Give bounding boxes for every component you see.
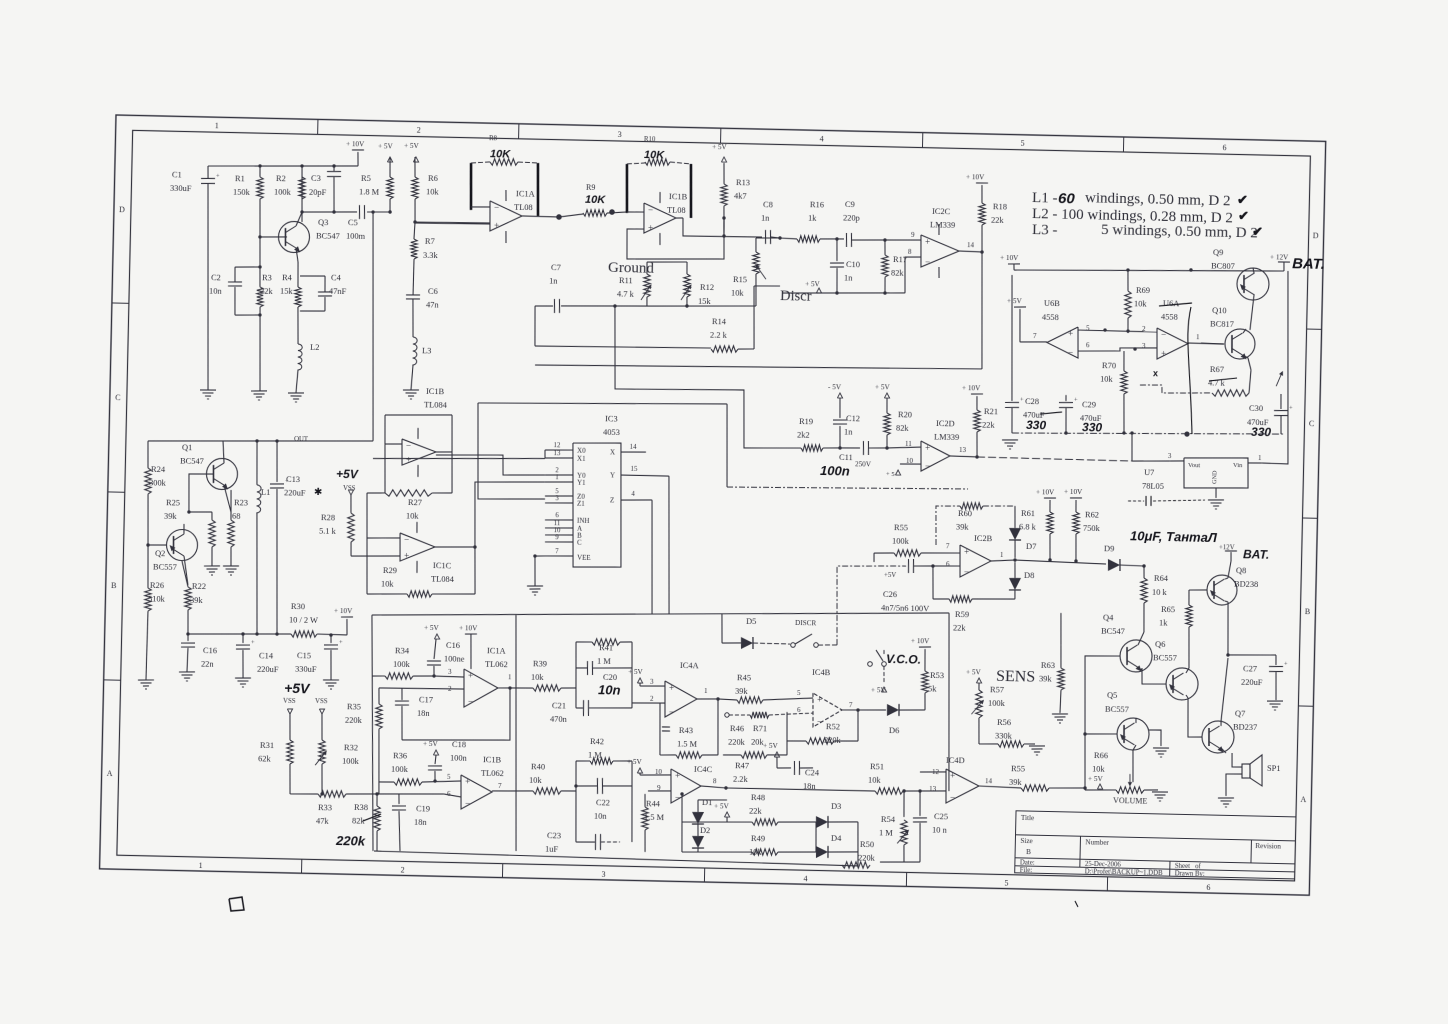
svg-text:330: 330 [1026,418,1047,432]
svg-text:R2: R2 [276,174,286,183]
svg-text:R3: R3 [262,273,272,282]
svg-text:330k: 330k [995,732,1013,741]
svg-text:+ 5V: + 5V [1088,775,1104,783]
wire X1 net to OUT [373,455,545,462]
resistor R20 [883,413,890,435]
op-amp IC1A feedback box with resistor R8 [470,163,472,210]
svg-text:R7: R7 [425,237,435,246]
svg-text:R31: R31 [260,741,274,750]
U7 pin stubs [1170,460,1184,463]
wire switch to C26 [835,565,906,647]
wire U7 vin to +12V rail [1262,271,1292,464]
svg-text:IC1B: IC1B [426,387,445,396]
op-amp IC1C [399,533,435,562]
resistor R39 [533,684,561,691]
ground R25 [204,565,220,568]
svg-text:+ 5V: + 5V [805,280,821,288]
ground U7 [1208,499,1224,502]
svg-text:L3: L3 [422,346,432,355]
svg-text:3.3k: 3.3k [423,251,439,260]
svg-text:✔: ✔ [1252,224,1263,239]
wire upper long bus to IC3 [478,399,727,409]
svg-text:220k: 220k [824,735,842,744]
svg-text:+: + [669,683,674,693]
svg-text:+ 10V: + 10V [459,624,478,632]
svg-text:15k: 15k [280,287,294,296]
op-amp IC1A [489,201,522,232]
svg-text:R40: R40 [531,762,545,771]
svg-text:10k: 10k [1134,299,1148,308]
IC chip IC3 4053 box [570,413,624,568]
svg-text:R8: R8 [489,135,498,142]
resistor R21 [973,410,980,432]
svg-text:R52: R52 [826,722,840,731]
svg-text:C10: C10 [846,260,860,269]
svg-text:BC547: BC547 [316,231,340,241]
diode D1 [697,800,700,812]
wire bus down to IC2D box [725,404,729,487]
resistor R60 feedback dashdot [935,505,960,545]
hand cap tantal [1145,496,1147,506]
svg-text:R63: R63 [1041,661,1055,670]
resistor R70 [1120,371,1127,394]
resistor R67 line [1140,385,1212,395]
svg-text:100m: 100m [346,232,366,241]
svg-text:R51: R51 [870,762,884,771]
capacitor C16 100n [434,634,439,639]
capacitor C16 22n [187,634,189,641]
svg-text:4k7: 4k7 [734,192,747,201]
svg-text:BD238: BD238 [1234,580,1258,590]
capacitor C26 [907,559,910,573]
trimpot R32 [321,714,322,740]
resistor R23 [227,520,234,547]
svg-text:1: 1 [199,861,203,870]
wire IC1C minus loop [365,493,369,594]
svg-text:Revision: Revision [1255,842,1281,851]
op-amp IC2B [959,545,991,578]
frame section ticks and zone numbers [317,119,319,134]
wire Q1 base down [188,473,214,512]
svg-text:+: + [251,639,255,646]
power +5V R5 [387,157,392,162]
svg-text:60: 60 [1058,190,1076,207]
svg-text:VSS: VSS [315,698,328,705]
svg-text:10k: 10k [406,512,420,521]
svg-text:−: − [817,717,822,727]
wire Q6 collector to Q7 base [1187,698,1203,737]
svg-text:10: 10 [655,768,663,776]
svg-text:✔: ✔ [1238,208,1249,223]
hand pen tick below frame [1075,901,1078,907]
IC3 output stubs [621,451,646,452]
inductor L3 [412,337,417,365]
capacitor C27 [1228,654,1276,656]
node blob R9 right [609,209,615,215]
svg-text:5k: 5k [928,684,937,693]
svg-text:C29: C29 [1082,400,1096,409]
svg-text:4.7 k: 4.7 k [617,289,635,298]
svg-text:+ 10V: + 10V [1000,254,1019,262]
svg-text:L1: L1 [261,488,271,497]
svg-text:−: − [925,256,930,266]
svg-text:+ 5V: + 5V [627,758,643,766]
svg-text:SP1: SP1 [1267,764,1281,773]
svg-text:10k: 10k [531,672,545,681]
diode D2 [692,836,704,848]
svg-text:10K: 10K [490,148,511,160]
svg-text:IC2D: IC2D [936,419,955,428]
svg-text:✱: ✱ [314,487,323,498]
svg-text:R55: R55 [894,523,908,532]
svg-text:Y: Y [610,471,615,479]
capacitor C21 [582,700,585,716]
svg-text:D5: D5 [746,617,756,626]
wire bottom bus with R30 [188,632,291,636]
svg-text:Vin: Vin [1233,462,1243,469]
svg-text:1n: 1n [844,427,853,436]
svg-text:+: + [817,695,822,705]
capacitor C24 [776,757,779,768]
svg-text:10K: 10K [585,194,606,206]
ground C14 [235,677,251,680]
svg-text:R29: R29 [383,566,397,575]
wire Y1 from IC1C out [474,481,545,549]
wire box right vertical [945,613,953,791]
svg-text:U6A: U6A [1163,299,1179,308]
svg-text:14: 14 [630,444,638,451]
svg-text:+: + [339,639,343,646]
svg-text:10k: 10k [1100,375,1114,384]
svg-text:R36: R36 [393,751,407,760]
wire IC1B plus-input loop [626,216,725,261]
svg-text:+: + [1161,348,1166,358]
svg-text:X0: X0 [577,447,586,455]
svg-text:−: − [950,792,955,802]
svg-text:5.1 k: 5.1 k [319,527,337,536]
svg-text:R26: R26 [150,581,164,590]
svg-text:1n: 1n [761,213,770,222]
svg-text:L3 -: L3 - [1032,222,1058,239]
resistor R22 [184,587,191,610]
wire IC4C output bus [701,786,726,788]
svg-text:Z: Z [610,496,614,504]
svg-text:R60: R60 [958,509,972,518]
wire IC1B output to C8 [676,217,683,219]
svg-text:C20: C20 [603,673,617,682]
svg-text:−: − [675,792,680,802]
svg-text:25-Dec-2006: 25-Dec-2006 [1085,861,1122,869]
svg-text:D3: D3 [831,802,841,811]
resistor R17 [881,255,888,277]
svg-text:TL08: TL08 [514,203,533,212]
svg-text:1: 1 [215,121,219,130]
svg-text:1 M: 1 M [597,657,611,666]
svg-text:R50: R50 [860,840,874,849]
svg-text:1.5 M: 1.5 M [677,739,698,748]
power +12V BAT [1278,261,1290,263]
svg-text:R18: R18 [993,202,1007,211]
svg-text:- 5V: - 5V [828,383,842,391]
svg-text:R4: R4 [282,273,293,282]
svg-text:IC1A: IC1A [516,189,535,198]
svg-text:750k: 750k [1083,523,1101,532]
trimpot R15 [752,252,759,274]
svg-text:+: + [950,770,955,780]
svg-text:R14: R14 [712,317,727,326]
svg-text:100ne: 100ne [444,654,465,663]
svg-text:C30: C30 [1249,404,1263,413]
svg-text:R54: R54 [881,815,896,824]
svg-text:Ground: Ground [608,260,655,277]
svg-text:IC4B: IC4B [812,668,831,677]
transistor Q10 BC817 [1225,329,1256,360]
svg-text:Q9: Q9 [1213,248,1223,257]
svg-text:4: 4 [820,134,824,143]
svg-text:300k: 300k [149,479,167,488]
svg-text:VEE: VEE [577,553,591,561]
svg-text:R24: R24 [151,465,166,474]
svg-text:C26: C26 [883,590,897,599]
resistor R28 [347,513,355,542]
svg-text:Q7: Q7 [1235,709,1245,718]
resistor R69 [1124,291,1131,318]
capacitor C2 [228,281,242,284]
svg-text:R32: R32 [344,743,358,752]
svg-text:C: C [577,538,582,546]
svg-text:Vout: Vout [1188,462,1201,469]
svg-text:+5V: +5V [336,467,359,481]
svg-text:VSS: VSS [283,698,296,705]
svg-text:5: 5 [1004,879,1008,888]
svg-text:R9: R9 [586,183,596,192]
svg-text:LM339: LM339 [934,433,959,443]
svg-text:C: C [115,393,121,402]
svg-text:100n: 100n [820,463,850,479]
node D9-R64 [1142,564,1145,567]
resistor R55 100k [874,552,894,555]
wire IC1A output [522,216,559,217]
svg-text:C21: C21 [552,701,566,710]
svg-text:C16: C16 [446,641,460,650]
wire D1 D2 branch [681,794,683,852]
svg-text:−: − [468,697,473,707]
capacitor C8 [764,230,767,244]
svg-text:39k: 39k [735,687,749,696]
svg-text:R57: R57 [990,685,1004,694]
wire D5 vertical [721,614,722,643]
wire diode join [815,822,816,852]
svg-text:12: 12 [554,442,562,449]
svg-text:4558: 4558 [1161,313,1178,322]
wire collector rail Q1 [148,436,373,446]
svg-text:510k: 510k [148,595,166,604]
svg-text:82k: 82k [896,423,910,432]
wire R40 to box [492,790,533,792]
svg-text:D7: D7 [1026,542,1036,551]
svg-text:+ 5V: + 5V [423,740,439,748]
capacitor C5 [358,205,361,219]
svg-text:10k: 10k [731,288,745,297]
power +5V R6 [413,157,418,162]
svg-text:18n: 18n [414,817,428,826]
resistor R35 [375,704,382,729]
node IC1C out [473,545,476,548]
svg-text:1: 1 [1258,455,1262,462]
svg-text:R56: R56 [997,718,1011,727]
power +5V R20 [884,393,889,398]
svg-text:100k: 100k [988,698,1006,707]
svg-text:10K: 10K [644,149,665,161]
capacitor C9 [837,238,844,240]
svg-text:Sheet of: Sheet of [1175,863,1202,871]
capacitor C19 [398,794,401,804]
svg-text:R46: R46 [730,724,744,733]
svg-text:+: + [404,550,409,560]
svg-text:47k: 47k [316,817,330,826]
wire Q8 collector to Q7 [1226,653,1229,656]
svg-text:+ 5V: + 5V [404,142,420,150]
svg-text:20pF: 20pF [309,188,327,197]
svg-text:IC4D: IC4D [946,756,965,765]
wire box divider vertical [511,615,521,851]
svg-text:BAT.: BAT. [1292,255,1325,273]
wire IC2D pin10 stub [900,463,921,466]
svg-text:10 / 2 W: 10 / 2 W [289,615,318,625]
wire mid verticals to IC3 [614,388,616,390]
power +5V C24 [774,752,779,757]
svg-text:C27: C27 [1243,664,1257,673]
op-amp U6A 4558 crossed [1156,328,1188,360]
svg-text:−: − [964,567,969,577]
transistor Q1 [206,458,238,490]
svg-text:10k: 10k [1092,765,1106,774]
diode D7 [1014,506,1017,528]
resistor R63 [1060,645,1061,668]
hand drawn square mark [229,897,245,912]
wire IC2D output to U7 [950,455,977,458]
wire IC2C output down and bus [979,252,984,369]
svg-text:Y1: Y1 [577,479,586,487]
svg-text:1 M: 1 M [879,829,893,838]
resistor R6 [411,177,418,199]
svg-text:1.5 M: 1.5 M [644,812,665,821]
svg-text:R48: R48 [751,793,765,802]
svg-text:+: + [675,770,680,780]
svg-text:X1: X1 [577,455,586,463]
svg-text:R12: R12 [700,283,714,292]
svg-text:C23: C23 [547,831,561,840]
wire IC1A TL062 output [498,687,533,688]
svg-text:39k: 39k [1039,674,1053,683]
svg-text:10n: 10n [598,682,621,697]
resistor R2 [298,177,305,199]
resistor R65 [1185,605,1192,627]
op-amp IC2C [920,235,959,268]
drawing frame outer border [100,115,1326,895]
svg-text:220k: 220k [858,853,876,862]
svg-text:C18: C18 [452,740,466,749]
svg-text:10 k: 10 k [1152,588,1168,597]
svg-text:+ 5V: + 5V [714,802,730,810]
resistor R45 [718,699,737,700]
power +10V IC1A TL062 [465,633,477,636]
power +10V R18 [976,182,988,184]
trimpot R54 [903,791,904,817]
svg-text:1k: 1k [808,214,817,223]
resistor R47 [723,754,741,757]
title block [1015,811,1296,879]
svg-text:R16: R16 [810,200,824,209]
op-amp IC4B dashed [812,693,842,728]
svg-text:330uF: 330uF [295,665,317,674]
ground C1 [200,389,216,392]
frame row ticks and zone letters [112,302,129,304]
svg-text:C12: C12 [846,414,860,423]
capacitor C11 [840,447,860,450]
resistor R5 [386,177,393,199]
resistor R26 [144,588,151,611]
svg-text:C8: C8 [763,200,773,209]
svg-text:D4: D4 [831,834,842,843]
cap symbol IC4A minus [662,726,670,728]
svg-text:R65: R65 [1161,605,1175,614]
svg-text:R43: R43 [679,726,693,735]
svg-text:10n: 10n [209,286,223,295]
svg-text:R11: R11 [619,276,633,285]
svg-text:LM339: LM339 [930,220,955,230]
resistor R24 [144,468,151,494]
svg-text:R41: R41 [599,643,613,652]
svg-text:BD237: BD237 [1233,723,1257,733]
svg-text:+ 5V: + 5V [875,383,891,391]
svg-text:R47: R47 [735,761,749,770]
svg-text:+ 12V: + 12V [1270,253,1289,261]
ground C16 [179,671,195,674]
svg-text:10μF, ТантаЛ: 10μF, ТантаЛ [1130,528,1218,545]
wire D6 to R53 [924,693,927,710]
trimpot R12 [683,274,690,297]
svg-text:+ 5V: + 5V [1007,297,1023,305]
power -5V C12 [837,393,842,398]
svg-text:−: − [465,798,470,808]
svg-text:+: + [1284,661,1288,668]
svg-text:R35: R35 [347,702,361,711]
trimpot R57 [978,683,980,690]
resistor R49 [682,851,752,854]
node R6-R7 [413,220,416,223]
svg-text:39k: 39k [956,523,970,532]
svg-text:15k: 15k [698,297,712,306]
svg-text:+: + [925,443,930,453]
power VSS arrows [287,709,292,714]
capacitor C15 [330,635,332,643]
svg-text:C13: C13 [286,475,300,484]
svg-text:+: + [494,220,499,230]
svg-text:10k: 10k [868,775,882,784]
svg-text:13: 13 [554,450,562,457]
wire IC1A TL062 loop [402,686,511,743]
svg-text:R6: R6 [428,174,438,183]
op-amp IC1B [643,203,676,234]
svg-text:DISCR: DISCR [795,619,817,627]
op-amp IC1B feedback box with resistor R10 [626,164,628,213]
resistor R46 and R71 [725,713,729,717]
svg-text:−: − [1161,330,1166,340]
svg-text:10k: 10k [749,847,763,856]
svg-text:R22: R22 [192,582,206,591]
svg-text:C: C [1309,419,1315,428]
